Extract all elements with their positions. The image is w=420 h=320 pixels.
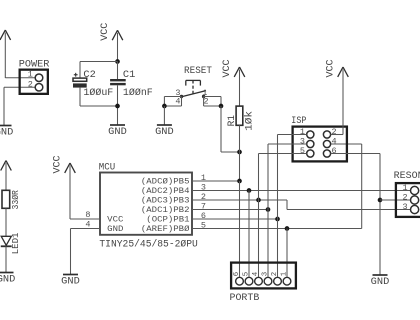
svg-text:1ØØnF: 1ØØnF [123, 87, 153, 99]
svg-text:2: 2 [204, 96, 209, 106]
svg-text:2: 2 [402, 192, 407, 202]
svg-text:1: 1 [402, 183, 407, 193]
svg-text:(ADC3)PB3: (ADC3)PB3 [141, 196, 190, 206]
svg-text:5: 5 [242, 272, 250, 276]
svg-text:VCC: VCC [100, 23, 111, 41]
svg-text:6: 6 [332, 146, 337, 156]
svg-text:GND: GND [107, 224, 123, 234]
svg-text:LED1: LED1 [11, 233, 21, 255]
svg-text:1: 1 [300, 127, 305, 137]
svg-text:VCC: VCC [222, 60, 233, 78]
svg-text:GND: GND [61, 277, 80, 288]
svg-text:R1: R1 [227, 115, 238, 126]
svg-text:VCC: VCC [107, 215, 123, 225]
svg-text:4: 4 [175, 96, 180, 106]
svg-text:VCC: VCC [53, 156, 64, 174]
svg-text:2: 2 [271, 272, 279, 276]
svg-text:(ADC2)PB4: (ADC2)PB4 [141, 186, 190, 196]
svg-text:RESET: RESET [184, 66, 212, 77]
svg-text:TINY25/45/85-2ØPU: TINY25/45/85-2ØPU [99, 238, 197, 250]
svg-text:4: 4 [252, 271, 260, 276]
svg-text:GND: GND [0, 128, 13, 139]
svg-text:2: 2 [332, 127, 337, 137]
svg-text:GND: GND [108, 127, 127, 138]
svg-text:GND: GND [371, 277, 390, 288]
svg-text:1Øk: 1Øk [244, 111, 256, 131]
svg-text:C1: C1 [123, 70, 135, 81]
svg-text:(OCP)PB1: (OCP)PB1 [146, 215, 189, 225]
svg-text:6: 6 [233, 272, 241, 276]
svg-text:PORTB: PORTB [230, 293, 260, 304]
svg-text:33ØR: 33ØR [11, 190, 21, 210]
svg-text:(ADCØ)PB5: (ADCØ)PB5 [141, 177, 190, 187]
svg-text:1ØØuF: 1ØØuF [83, 87, 113, 99]
svg-text:C2: C2 [83, 70, 95, 81]
svg-text:GND: GND [0, 275, 15, 286]
svg-text:(AREF)PBØ: (AREF)PBØ [141, 224, 190, 234]
svg-text:3: 3 [261, 272, 269, 276]
svg-text:GND: GND [155, 127, 174, 138]
svg-text:3: 3 [300, 137, 305, 147]
svg-text:(ADC1)PB2: (ADC1)PB2 [141, 205, 190, 215]
svg-text:RESONATOR: RESONATOR [394, 171, 420, 182]
svg-text:VCC: VCC [326, 60, 337, 78]
svg-text:3: 3 [402, 202, 407, 212]
svg-text:1: 1 [28, 70, 33, 80]
svg-text:5: 5 [300, 146, 305, 156]
svg-text:4: 4 [332, 137, 337, 147]
svg-text:1: 1 [280, 271, 288, 276]
svg-text:2: 2 [28, 79, 33, 89]
